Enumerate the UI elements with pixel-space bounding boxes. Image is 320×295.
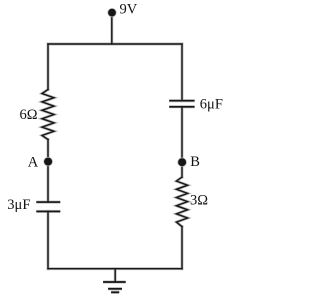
svg-text:6μF: 6μF [200, 96, 223, 112]
svg-text:3μF: 3μF [7, 197, 30, 213]
svg-text:9V: 9V [120, 1, 138, 17]
svg-text:B: B [190, 154, 200, 170]
svg-text:A: A [28, 155, 39, 171]
svg-text:6Ω: 6Ω [20, 107, 38, 123]
svg-text:3Ω: 3Ω [190, 192, 208, 208]
